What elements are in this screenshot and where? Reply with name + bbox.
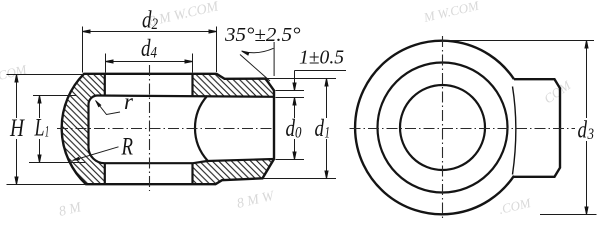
- watermark bottom right: [497, 195, 533, 217]
- svg-text:r: r: [124, 89, 134, 114]
- dimension d4: [106, 54, 193, 73]
- slot right vertical top: [191, 74, 193, 96]
- ball cavity arc: [195, 96, 208, 161]
- cavity top line and bore top: [98, 96, 275, 97]
- corner radius R arc: [89, 148, 105, 164]
- svg-text:.COM: .COM: [497, 195, 533, 217]
- outer profile: [62, 74, 274, 184]
- hatched bottom-right band: [193, 159, 275, 184]
- svg-text:M W.COM: M W.COM: [421, 0, 481, 25]
- svg-text:1±0.5: 1±0.5: [299, 47, 344, 69]
- inner circle: [400, 85, 485, 170]
- centerline vertical right view: [442, 36, 444, 221]
- slot left vertical bottom: [104, 163, 106, 184]
- svg-text:3: 3: [587, 126, 594, 143]
- shank tab outline: [513, 79, 560, 177]
- svg-text:R: R: [121, 134, 133, 161]
- watermark top center: [148, 0, 222, 30]
- dimension d2: [83, 27, 217, 73]
- leader r: [96, 101, 121, 115]
- svg-text:0: 0: [295, 125, 302, 142]
- dimension d1: [263, 79, 336, 179]
- middle circle: [378, 63, 508, 193]
- hatched top-right band: [193, 74, 275, 97]
- dimension d3: [443, 41, 597, 215]
- dimension L1: [29, 96, 85, 163]
- 35 degree vertical extension line: [273, 42, 275, 76]
- watermark bottom left: [58, 200, 84, 220]
- svg-text:1: 1: [325, 125, 331, 142]
- cavity bottom line and bore bottom: [105, 159, 275, 163]
- corner radius r arc: [89, 96, 98, 105]
- svg-text:2: 2: [152, 16, 159, 33]
- svg-text:d: d: [578, 118, 588, 144]
- svg-text:d: d: [315, 116, 325, 142]
- svg-text:1: 1: [45, 124, 50, 141]
- dimension d0: [276, 105, 305, 160]
- dimension 1±0.5: [276, 71, 347, 106]
- svg-text:L: L: [34, 115, 45, 142]
- svg-text:H: H: [9, 115, 25, 142]
- svg-text:COM: COM: [541, 77, 574, 107]
- svg-text:8 M W: 8 M W: [236, 189, 277, 212]
- 35 degree chamfer extension line: [240, 55, 270, 82]
- watermark top right: [421, 0, 481, 25]
- svg-text:8 M W.COM: 8 M W.COM: [148, 0, 222, 30]
- cavity left wall: [87, 105, 89, 148]
- 35 degree dimension arc: [242, 48, 274, 52]
- watermark left edge: [0, 61, 29, 84]
- tab inner flat arc: [513, 87, 516, 175]
- watermark right side: [541, 77, 574, 107]
- dimension H: [7, 75, 88, 185]
- svg-text:8 M: 8 M: [58, 200, 84, 220]
- slot left vertical top: [104, 74, 106, 96]
- hatched left wall region: [62, 74, 105, 184]
- svg-text:4: 4: [151, 45, 158, 62]
- leader R: [73, 147, 119, 161]
- slot right vertical bottom: [191, 163, 193, 184]
- centerline horizontal right view: [350, 128, 576, 130]
- svg-text:.COM: .COM: [0, 61, 29, 84]
- centerline horizontal left view: [57, 128, 273, 130]
- watermark bottom center: [236, 189, 277, 212]
- outer circle arc: [355, 41, 514, 215]
- centerline vertical left view: [149, 65, 151, 191]
- svg-text:35°±2.5°: 35°±2.5°: [224, 24, 301, 46]
